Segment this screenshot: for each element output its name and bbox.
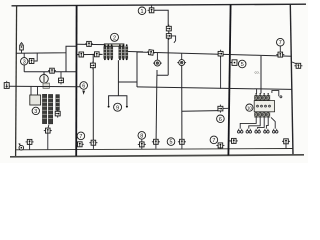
terminal on right frame bbox=[292, 62, 302, 68]
circled 3 annotation left bbox=[21, 53, 28, 65]
fuse F3 under bar R3 bbox=[55, 110, 60, 118]
frame top border bbox=[12, 4, 307, 6]
heavy vertical line right bbox=[228, 5, 230, 156]
frame left border bbox=[16, 6, 17, 157]
block10 middle body bbox=[254, 101, 274, 112]
fuse F6 bbox=[77, 52, 85, 57]
lamp L2 bbox=[177, 54, 186, 66]
fuse F13 on bus1 right bbox=[218, 50, 223, 89]
block10 fan wire 2 bbox=[249, 117, 260, 128]
block10 fan wire 4 bbox=[266, 117, 268, 128]
svg-text:6: 6 bbox=[82, 84, 85, 90]
block2 resistor group A bbox=[104, 44, 113, 60]
fuse F4 under bar R2 bbox=[44, 125, 52, 150]
lamp L2 drop wire bbox=[181, 66, 183, 140]
bus C left segment bbox=[9, 85, 80, 88]
motor M1 bbox=[40, 72, 50, 88]
component K1 small box with dot bbox=[59, 72, 64, 85]
wire to block2 top bbox=[77, 43, 105, 45]
bus 1 horizontal bbox=[137, 52, 292, 56]
connector pair 3 bbox=[255, 129, 261, 133]
svg-text:5: 5 bbox=[241, 62, 244, 68]
terminal T2 bbox=[26, 139, 34, 149]
box B2 bbox=[30, 95, 41, 105]
circled 6 annotation with pointer bbox=[80, 82, 88, 95]
fuse F8 on drop wire bbox=[90, 61, 95, 69]
terminal T1 circle-dot on bus bbox=[19, 143, 24, 150]
fuse F12 on bus1 bbox=[147, 49, 156, 55]
box K5 on heavy vertical bbox=[230, 60, 238, 66]
wire below fuses to bus1 and bracket bbox=[167, 38, 169, 75]
wire from mid fuse chain down bbox=[92, 55, 94, 141]
fuse F5 bbox=[85, 41, 93, 46]
block10 bottom row cells bbox=[255, 112, 270, 117]
bracket to lamp L1 bbox=[157, 70, 168, 75]
wire from lamp2 drop to fuse K6 bbox=[182, 110, 219, 113]
svg-text:8: 8 bbox=[140, 133, 143, 139]
pitchfork wire bbox=[108, 60, 128, 107]
plug symbol P1 bbox=[20, 43, 24, 53]
bottom bus wire bbox=[16, 149, 293, 150]
external box with arrow outside left frame bbox=[4, 81, 9, 89]
terminal T4 on heavy vertical bbox=[76, 142, 84, 147]
wire to block2 lower bbox=[77, 53, 103, 55]
fuse F7 bbox=[93, 52, 101, 57]
svg-text:5: 5 bbox=[170, 140, 173, 146]
heavy vertical line left bbox=[75, 5, 77, 156]
svg-text:3: 3 bbox=[23, 59, 26, 65]
circled 6 annotation right bbox=[217, 115, 225, 123]
wire B horizontal bbox=[24, 65, 76, 72]
paper background bbox=[0, 0, 308, 163]
block10 fan wire 1 bbox=[240, 117, 256, 128]
fuse F11 bbox=[166, 32, 171, 40]
block10 right hook wire bbox=[272, 91, 282, 98]
fuse F1 beside circle 3 bbox=[28, 53, 38, 64]
svg-text:co.: co. bbox=[255, 70, 260, 75]
fuse F2 on wire B bbox=[48, 68, 56, 73]
circled 5 annotation upper bbox=[238, 60, 246, 68]
connector pair 2 bbox=[246, 129, 252, 133]
circled 7 annotation bottom bbox=[210, 136, 218, 144]
circled 1 annotation bbox=[138, 7, 146, 15]
circled 8 annotation bottom bbox=[138, 132, 146, 142]
resistor bar R2 bbox=[48, 94, 52, 124]
terminal T9 bbox=[216, 143, 224, 149]
svg-text:10: 10 bbox=[247, 105, 252, 110]
frame right border bbox=[290, 4, 293, 155]
svg-text:3: 3 bbox=[34, 109, 37, 115]
switch hook bbox=[171, 36, 176, 43]
T wire from pitchfork vertical to drop bbox=[118, 81, 137, 83]
terminal T8 lamp2 chain bbox=[178, 139, 186, 149]
wire from block2 right to bus1 bbox=[128, 51, 143, 53]
drop wire x137 to bus C bbox=[136, 52, 138, 87]
fuse F10 bbox=[166, 25, 171, 33]
block2 tie bar bbox=[104, 44, 124, 47]
svg-text:2: 2 bbox=[113, 35, 116, 41]
terminal T11 right bbox=[282, 139, 290, 149]
circled 10 annotation bbox=[246, 104, 253, 111]
block10 fan wire 5 bbox=[271, 117, 275, 128]
resistor bar R3 bbox=[56, 95, 59, 111]
circled 3 annotation lower bbox=[32, 107, 39, 115]
connector pair 5 bbox=[272, 129, 278, 133]
fuse K6 bbox=[218, 105, 229, 113]
drop wire to block10 bbox=[260, 56, 262, 93]
stub from busC to block10 bbox=[256, 89, 258, 93]
terminal T7 lamp1 chain bbox=[152, 139, 160, 149]
bus C right segment bbox=[137, 87, 292, 90]
lamp L1 drop wire bbox=[155, 75, 158, 139]
wire A horizontal upper-left bbox=[16, 46, 77, 53]
block10 top terminal dots bbox=[255, 93, 269, 95]
drop stubs into box B2 bbox=[31, 87, 38, 96]
fuse F14 under circle 7 bbox=[276, 52, 284, 57]
lamp L1 bbox=[153, 53, 162, 66]
block2 resistor group B bbox=[119, 44, 128, 60]
connector pair 1 bbox=[237, 129, 243, 133]
circled 7 annotation at heavy line bottom bbox=[77, 132, 85, 140]
fuse F9 beside circle 1 bbox=[148, 5, 156, 13]
svg-text:7: 7 bbox=[79, 134, 82, 140]
circled 5 annotation bottom bbox=[167, 138, 175, 146]
svg-text:7: 7 bbox=[279, 40, 282, 46]
svg-text:6: 6 bbox=[219, 117, 222, 123]
frame bottom border bbox=[10, 155, 304, 157]
block10 top row cells bbox=[255, 95, 270, 100]
wire from F9 to drop bbox=[155, 10, 168, 26]
connector pair 4 bbox=[264, 129, 270, 133]
circled 7 annotation upper right bbox=[277, 38, 285, 51]
circled 2 annotation bbox=[111, 33, 119, 41]
svg-text:9: 9 bbox=[116, 105, 119, 111]
svg-text:7: 7 bbox=[212, 138, 215, 144]
block10 fan wire 3 bbox=[258, 117, 265, 128]
wire node drop at 66 bbox=[65, 53, 67, 72]
terminal T5 bbox=[89, 140, 97, 149]
resistor bar R1 bbox=[42, 94, 46, 124]
svg-text:1: 1 bbox=[141, 9, 144, 15]
terminal T6 under circle 8 bbox=[138, 142, 146, 149]
terminal T10 on heavy vertical right bbox=[229, 138, 238, 143]
circled 9 annotation bbox=[114, 103, 122, 111]
